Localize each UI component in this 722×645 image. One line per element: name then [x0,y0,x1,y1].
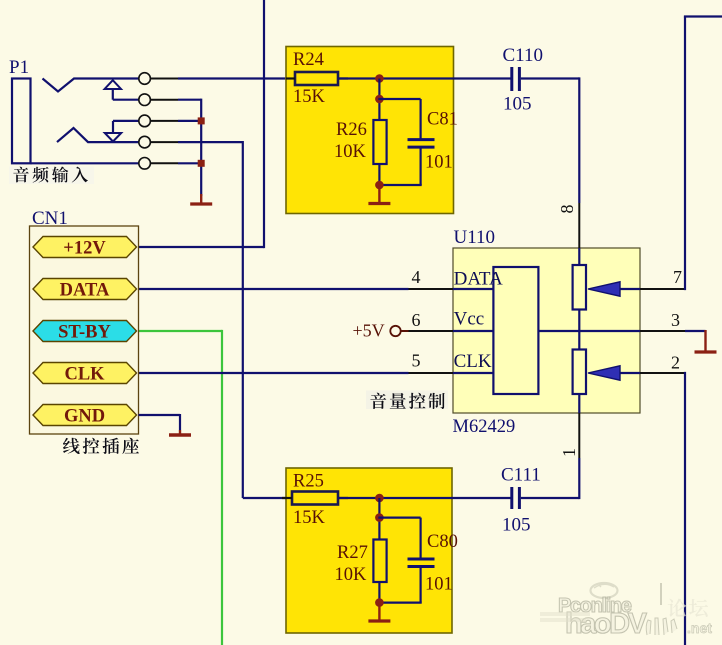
P1 tip contact left channel [43,79,139,92]
svg-text:105: 105 [502,515,531,536]
wire ST-BY green net [139,330,223,332]
P1 pin 2 lead [150,99,178,101]
wire R27 bottom [378,582,380,603]
port GND [33,405,137,426]
svg-text:6: 6 [412,310,421,330]
svg-text:10K: 10K [335,565,368,585]
P1 pin 1 lead [150,78,178,80]
port +12V [33,237,137,258]
svg-text:U110: U110 [454,227,496,248]
ground CN1 [179,414,181,430]
wire DATA net [139,288,409,290]
junction R24 output [375,74,384,83]
svg-text:2: 2 [671,353,680,373]
svg-text:DATA: DATA [60,281,110,301]
wire R24 to C110 [338,77,511,79]
svg-text:ST-BY: ST-BY [58,323,111,343]
ground jack [200,194,202,204]
wire pin3 to ground [685,330,706,332]
capacitor C81 branch [378,98,420,100]
junction at pin3 [198,117,205,124]
junction R26 bottom [375,181,384,190]
IC U110 box [453,248,640,413]
svg-text:15K: 15K [293,87,326,107]
P1 pin 4 circle [139,136,151,148]
svg-text:R25: R25 [293,472,324,492]
svg-text:15K: 15K [293,508,326,528]
wire pin7 up off-page [684,17,686,291]
wire jack pin2 down to ground [178,99,201,101]
svg-text:R27: R27 [337,543,368,563]
capacitor C110 [510,67,513,91]
wire GND port to ground [139,414,181,416]
wire jack pin4 down to R25 [178,141,243,143]
junction R26 top [375,95,384,104]
U110 wiper arrow top [588,282,620,296]
svg-text:C81: C81 [427,110,458,130]
wire CLK net [139,372,409,374]
svg-text:.net: .net [687,620,712,636]
wire R25 to C111 [338,497,511,499]
U110 pot bottom [573,350,586,395]
RC filter box top [286,47,454,214]
svg-text:GND: GND [64,407,105,427]
svg-text:8: 8 [557,205,577,214]
label audio input 音频输入 [9,167,94,185]
port CLK [33,363,137,384]
RC filter box bottom [286,468,452,633]
connector CN1 box [30,226,139,434]
wire +12V up off-page [139,246,265,248]
wire C110 to U110 pin8 [521,77,580,79]
resistor R26 [373,120,386,164]
svg-text:101: 101 [425,153,453,173]
junction R27 bottom [375,598,384,607]
P1 pin 5 lead [150,162,178,164]
U110 pin 7 [640,288,685,290]
P1 pin 1 circle [139,73,151,85]
connector P1 jack body [12,79,31,164]
svg-text:M62429: M62429 [453,417,516,437]
wire jack pin3 to junction [178,120,201,122]
wire C111 to U110 pin1 [521,497,580,499]
P1 tip contact right channel [57,128,139,142]
svg-text:CLK: CLK [64,365,105,385]
U110 pin 3 [640,330,685,332]
U110 pin 6 [409,330,454,332]
U110 pin 2 [640,372,685,374]
svg-text:R26: R26 [336,120,367,140]
P1 pin 4 lead [150,141,178,143]
svg-text:P1: P1 [9,57,29,78]
label 音量控制 [366,391,448,410]
capacitor C80 branch [378,516,420,518]
resistor R24 pin stubs [286,77,295,79]
wire R26 bottom [378,164,380,185]
ground pin3 [704,330,706,352]
junction R27 top [375,513,384,522]
svg-text:R24: R24 [293,50,324,70]
svg-text:C110: C110 [503,45,543,66]
P1 pin 3 lead [150,120,178,122]
P1 pin 3 circle [139,115,151,127]
svg-text:10K: 10K [334,142,367,162]
svg-text:7: 7 [673,267,682,287]
U110 pin lines left [453,288,493,290]
U110 pin 4 [409,288,454,290]
svg-text:+5V: +5V [353,321,385,341]
wire jack pin5 to junction [178,162,201,164]
U110 wiper arrow bottom [588,366,620,380]
svg-text:4: 4 [412,267,421,287]
wire jack pin1 to R24 [178,77,295,79]
label 线控插座 [63,438,139,454]
P1 pin 2 circle [139,94,151,106]
svg-text:CLK: CLK [454,351,492,372]
resistor R27 [373,540,386,583]
U110 pot top [573,265,586,310]
U110 internal bus [538,330,640,332]
svg-text:DATA: DATA [454,269,503,290]
U110 inner body [493,267,538,394]
port ST-BY [33,321,137,342]
svg-text:101: 101 [425,575,453,595]
capacitor C111 [510,487,513,509]
P1 switch arrow up [105,80,121,89]
resistor R24 [295,72,338,85]
resistor R25 pin stubs [282,497,292,499]
U110 pin 5 [409,372,454,374]
P1 sleeve line [31,162,139,164]
P1 switch arrow down [113,120,139,122]
port DATA [33,279,137,300]
junction R25 output [375,494,384,503]
svg-text:105: 105 [503,94,532,115]
U110 pin 1 [578,413,580,458]
junction at pin5 [198,160,205,167]
svg-text:5: 5 [412,351,421,371]
P1 pin 5 circle [139,158,151,170]
svg-text:Vcc: Vcc [454,309,485,330]
wire junction down to R27 [378,498,380,540]
svg-text:C111: C111 [501,465,541,486]
resistor R25 [292,492,338,505]
U110 pin 8 [578,203,580,248]
ground R26/C81 [378,185,380,204]
wire pin2 down off-page [684,372,686,645]
svg-text:+12V: +12V [63,239,106,259]
svg-text:C80: C80 [427,532,458,552]
wire junction down to R26 [378,79,380,121]
watermark (decorative) [540,583,712,640]
ground R27/C80 [378,603,380,621]
svg-text:3: 3 [671,310,680,330]
svg-text:1: 1 [559,448,579,457]
